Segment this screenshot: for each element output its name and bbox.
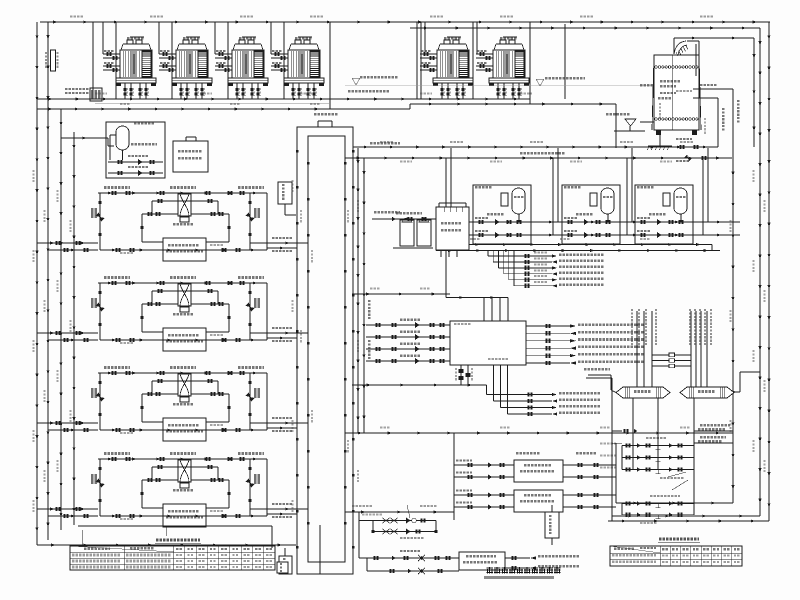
roof parapet level line [345, 76, 700, 92]
PHX piping right [563, 463, 616, 509]
PHX supply loop [453, 433, 455, 520]
bypass risers [359, 512, 436, 558]
left riser pipe 1 [36, 22, 39, 545]
boiler exhaust stack [674, 38, 699, 79]
boiler pipe labels [660, 84, 740, 134]
pipe size labels manifold sides [292, 180, 360, 512]
central distribution box [450, 321, 526, 365]
tower top branch pipes [103, 22, 271, 54]
header bottom drop pipe [319, 525, 321, 576]
YG box piping left row 1 [359, 550, 459, 561]
right tower collector pipe 2 [417, 103, 530, 106]
small pump box bottom left [545, 505, 559, 545]
YG box piping right [505, 555, 579, 570]
cooling tower section header pipes [93, 22, 330, 109]
right tower section header pipes [417, 22, 530, 104]
bottom right return pipe 1 [616, 502, 733, 505]
pipe size labels left risers [33, 170, 72, 512]
chilled water supply bus [353, 146, 718, 149]
cooling tower collector pipe 2 [37, 104, 417, 111]
secondary pump group P-2 [562, 185, 620, 244]
pump group supply header [446, 221, 740, 224]
chiller unit CH-4 piping [91, 452, 267, 527]
header side risers [357, 148, 366, 433]
PHX labels [516, 452, 596, 455]
bus branch valves [676, 138, 707, 162]
frame top supply pipe [40, 21, 770, 24]
bypass valve row 1 [359, 505, 436, 523]
zone valve cluster 1 [600, 443, 694, 474]
expansion tank ET1 [110, 122, 157, 160]
chiller CH-1 feed from risers [37, 237, 308, 252]
right tower top branch pipes [425, 22, 477, 54]
central box top risers [446, 251, 508, 322]
chiller CH-3 feed from risers [37, 417, 308, 432]
central box left pump branches [366, 319, 450, 364]
secondary loop branch labels upper [488, 251, 603, 288]
pipe size labels buses [370, 141, 693, 429]
stack relief line to riser [674, 37, 754, 40]
cooling tower CT-4 [271, 37, 324, 99]
boiler outlet pipe top [693, 89, 733, 158]
distribution branch labels lower [455, 365, 600, 416]
left riser pipe 2 [47, 22, 50, 540]
chilled water return bus [345, 157, 732, 160]
zone valve cluster 1 labels [646, 428, 725, 490]
distribution header outer ring pipe [296, 127, 354, 574]
supply water header right [616, 387, 670, 398]
bottom right return pipe 2 [612, 515, 760, 518]
right riser pipe inner [759, 28, 762, 516]
make-up water tank box [173, 137, 208, 172]
pump group riser drops [446, 148, 708, 235]
pump group outlet header 2 [436, 245, 720, 253]
cooling tower CT-5 [420, 37, 473, 99]
right tower outlet pipe to plant [530, 24, 616, 148]
expansion tank valve line 2 [108, 166, 163, 176]
YG box piping left row 2 [367, 558, 459, 574]
chiller unit CH-1 piping [91, 186, 267, 261]
cooling tower collector pipe 1 [37, 98, 417, 101]
chiller unit CH-3 piping [91, 366, 267, 441]
boiler feed funnel [606, 113, 654, 131]
main loop bottom right [345, 432, 733, 504]
right tower collector pipe 1 [417, 98, 530, 101]
bottom connector pipe left [78, 526, 272, 548]
boiler outlet pipe bottom [693, 98, 718, 147]
steam boiler tank B1 [652, 55, 701, 135]
left table side box [277, 562, 288, 573]
PHX piping left [454, 460, 514, 510]
pump group outlet header 1 [436, 243, 712, 246]
valve cluster outlet pipes to riser [694, 424, 733, 443]
left risers to bottom junction [37, 544, 296, 547]
cooling tower CT-3 [215, 37, 268, 99]
softened water tank SW1 [436, 203, 469, 257]
left table title [155, 539, 201, 544]
left riser valve box [45, 50, 59, 71]
header top vent [314, 113, 337, 127]
supply header feed from left [584, 368, 616, 393]
pipe size labels right risers [730, 170, 766, 472]
supply header risers with labels [631, 309, 657, 387]
cooling tower CT-2 [159, 37, 212, 99]
city water feed line [372, 211, 436, 221]
zone valve cluster 2 [622, 501, 694, 519]
bypass valve row 2 [372, 529, 438, 540]
left table feed lines [81, 530, 83, 546]
expansion tank valve line 1 [108, 155, 163, 165]
cooling tower CT-6 [476, 37, 529, 99]
right riser pipe mid [732, 158, 735, 503]
frame top return pipe [410, 27, 760, 30]
left riser pipe 4 [73, 132, 76, 525]
right header feed pipes [586, 378, 637, 521]
header pipe labels [300, 210, 349, 452]
chiller CH-4 feed from risers [37, 503, 308, 518]
distribution header inner ring pipe [307, 136, 346, 562]
pipe size labels top lines [70, 16, 713, 106]
boiler drain symbol [647, 135, 672, 150]
pressure tank box bottom left of header [279, 548, 292, 574]
expansion tank box [106, 122, 165, 178]
supply bus to big box lower [352, 300, 487, 387]
chiller CH-2 feed from risers [37, 327, 308, 342]
water treatment unit [393, 212, 433, 248]
stack relief riser [753, 38, 756, 147]
secondary pump group P-1 [473, 185, 531, 244]
valve schedule table left [70, 546, 275, 570]
air vent box unit1 [278, 182, 296, 215]
secondary pump group P-3 [635, 185, 693, 244]
return water header right [680, 387, 734, 398]
distribution branch labels right [526, 323, 643, 365]
bypass bus from header bottom [345, 505, 454, 514]
left riser pipe 3 [60, 109, 63, 530]
zone valve cluster 2 labels [640, 495, 680, 524]
supply bus to big box upper [352, 293, 450, 296]
header drop pipes to valve rows [622, 398, 694, 515]
bottom right return pipe 3 [608, 520, 769, 523]
roof line left [95, 103, 330, 105]
make-up water feed pipe [61, 137, 114, 147]
right table title [658, 538, 700, 543]
plate heat exchanger unit PHX-1 [514, 460, 563, 482]
chiller unit CH-2 piping [91, 276, 267, 351]
condenser water label box [65, 88, 102, 101]
cooling tower CT-1 [103, 37, 156, 99]
right riser pipe outer [768, 22, 771, 521]
plate heat exchanger unit PHX-2 [514, 490, 563, 512]
return header link to riser [734, 372, 760, 392]
drawing title text [484, 567, 560, 579]
return header risers with labels [689, 309, 712, 387]
valve schedule table right [610, 546, 742, 566]
pump group return header [446, 234, 740, 237]
bus label [370, 142, 564, 154]
heat exchange unit YG box [459, 552, 505, 570]
header balance pipes [652, 353, 691, 368]
